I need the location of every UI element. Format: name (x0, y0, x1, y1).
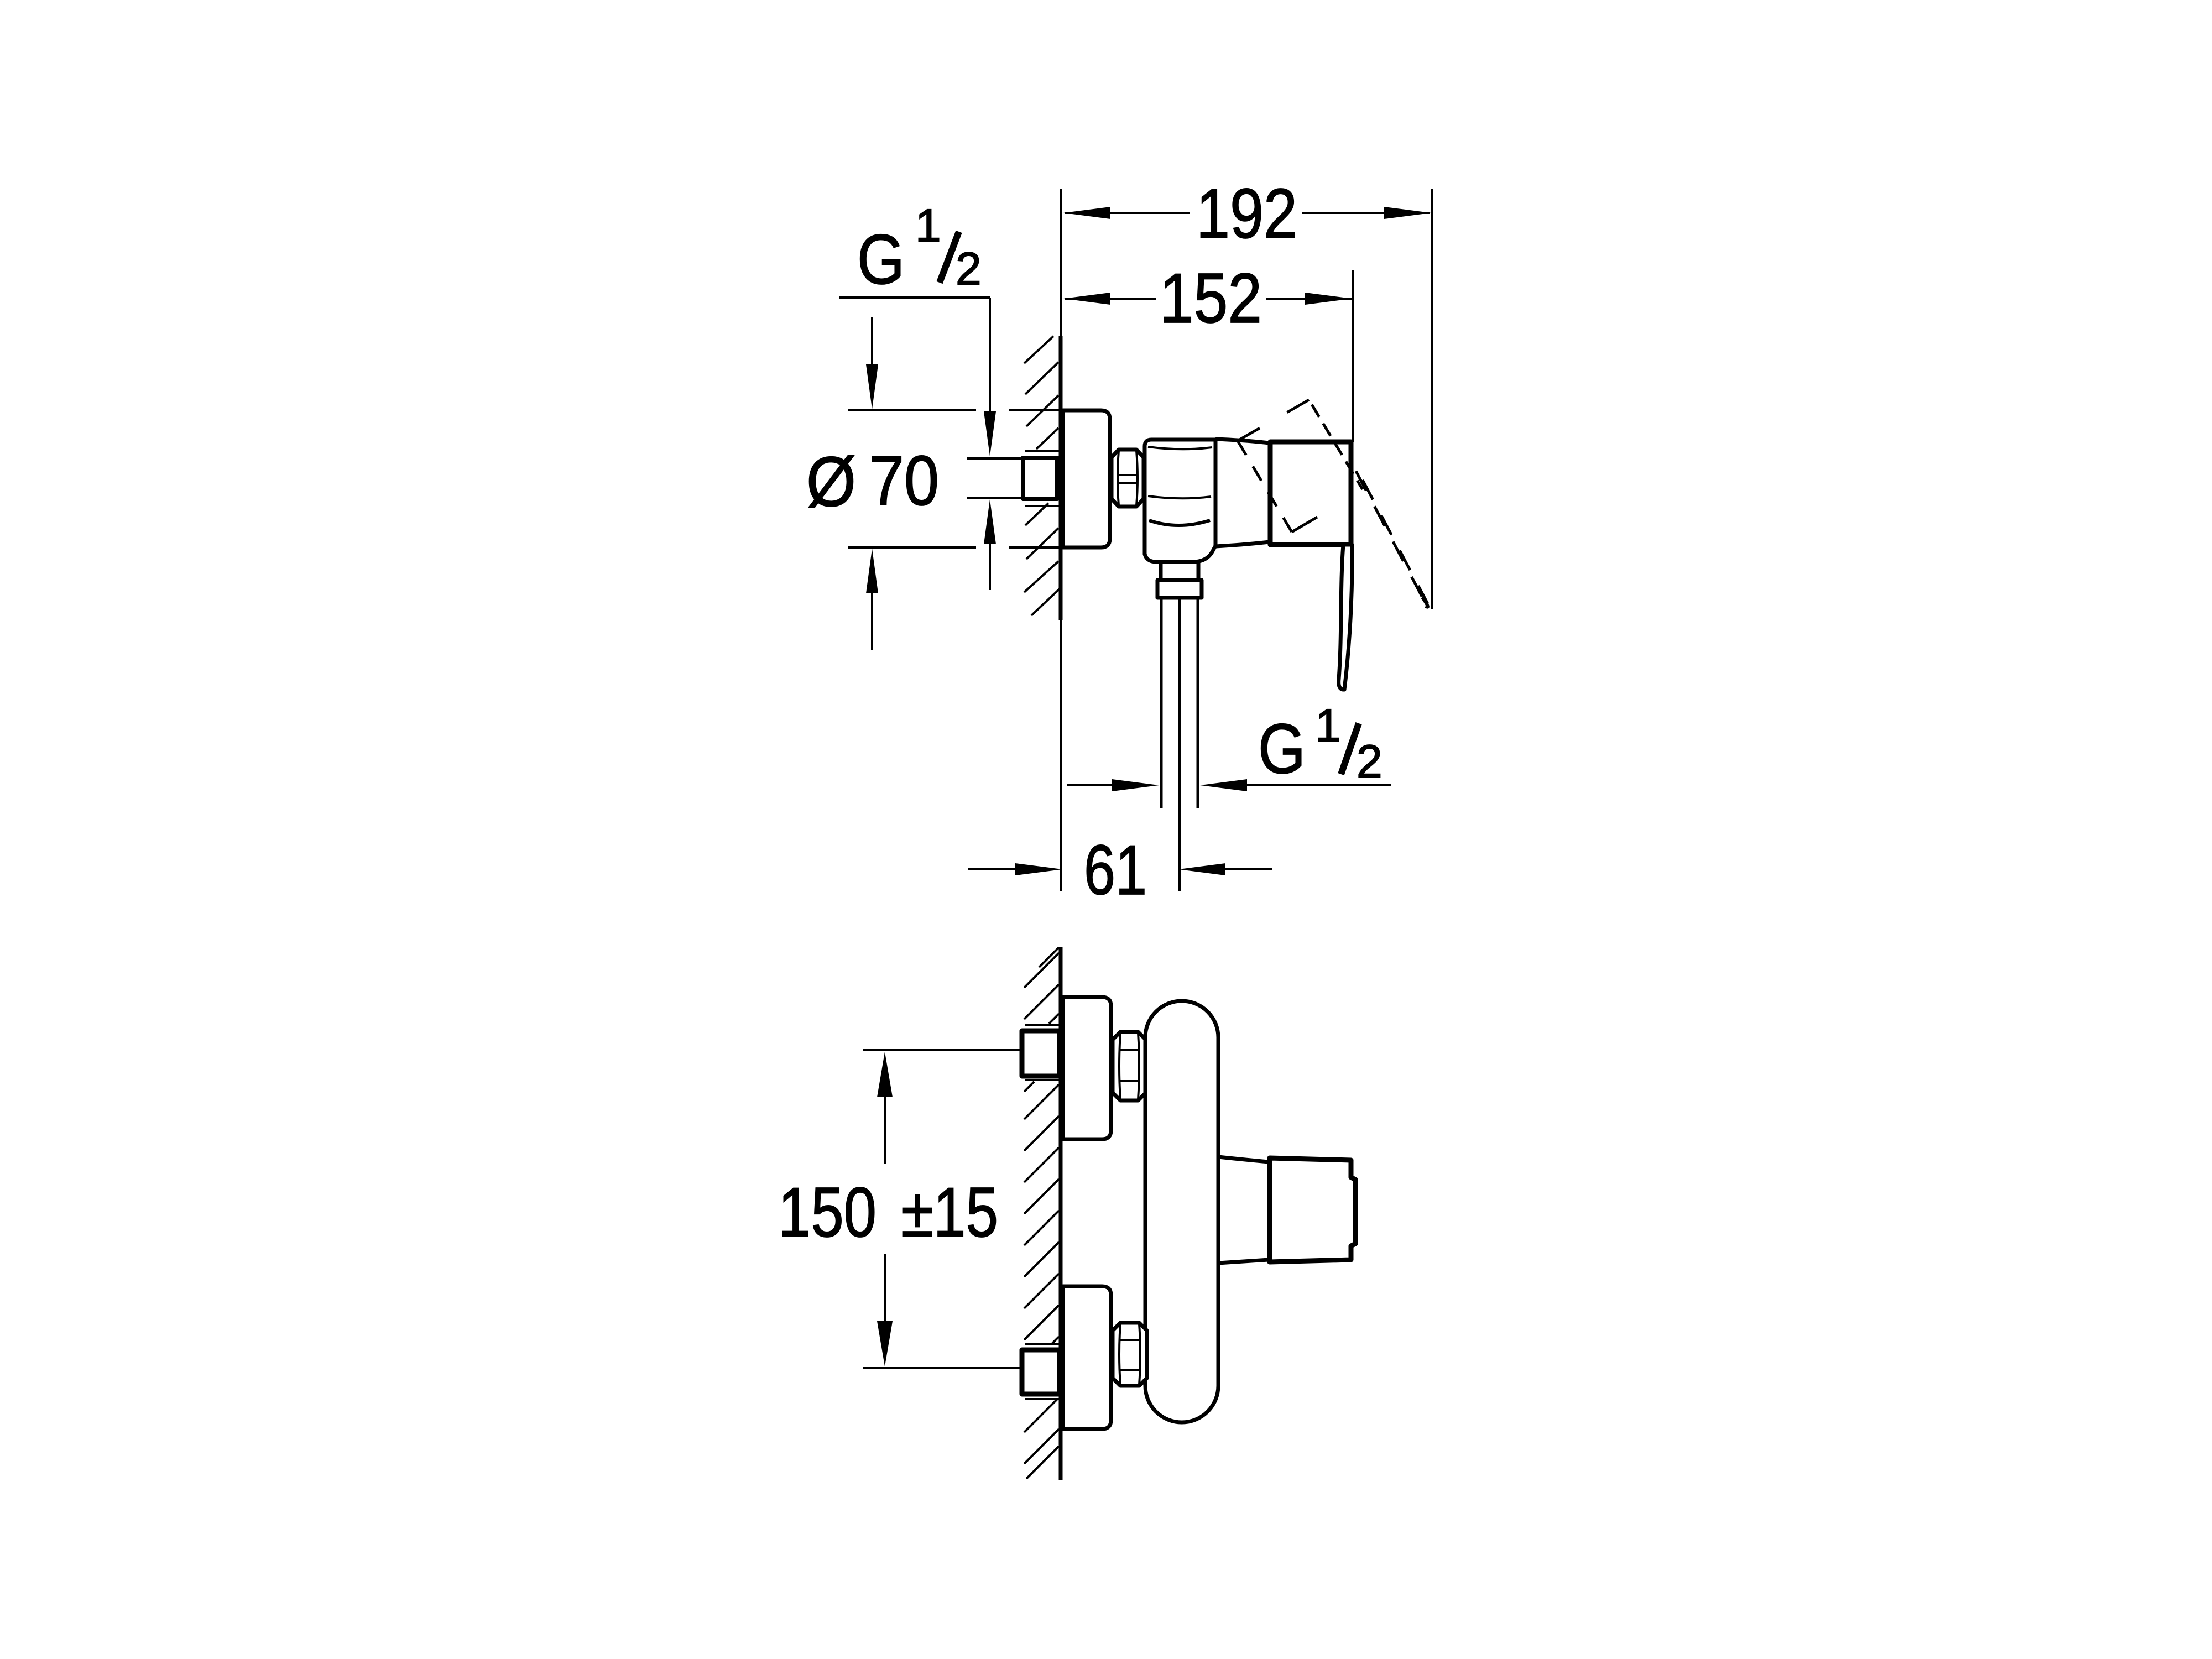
upper hex nut (bottom view) (1113, 1032, 1146, 1100)
wall line (bottom view) (1059, 947, 1063, 1480)
wall hatching (top view) (1024, 336, 1061, 615)
dimension 61 (968, 868, 1272, 870)
cartridge adapter cone (top view) (1215, 438, 1269, 547)
square union nut G1/2 (top view) (1023, 458, 1057, 499)
svg-text:Ø: Ø (806, 442, 856, 521)
lower pipe stub (bottom view) (1025, 1344, 1059, 1399)
outlet stub (top view) (1161, 562, 1198, 580)
upper square union nut (bottom view) (1022, 1031, 1060, 1076)
escutcheon flange (top view) (1063, 410, 1110, 547)
lever handle (solid, closed position) (1339, 545, 1352, 690)
handle block (bottom view) (1270, 1158, 1355, 1262)
dimension 150 ±15 (863, 1050, 1020, 1368)
inlet pipe stub (behind wall) (967, 451, 1059, 506)
svg-text:152: 152 (1160, 259, 1262, 337)
wall line (top view) (1061, 189, 1061, 891)
upper pipe stub (bottom view) (1025, 1025, 1059, 1080)
cartridge cone (bottom view) (1218, 1157, 1269, 1263)
svg-text:70: 70 (869, 441, 939, 520)
lower escutcheon flange (bottom view) (1063, 1286, 1111, 1429)
svg-text:61: 61 (1084, 831, 1147, 909)
valve body (top view) (1145, 440, 1215, 562)
svg-text:192: 192 (1196, 174, 1297, 253)
mixer body (bottom view) (1145, 1001, 1218, 1422)
shower hose (1161, 598, 1198, 891)
lever phantom (raised position, dashed) (1238, 400, 1428, 604)
svg-text:G: G (1258, 709, 1306, 788)
svg-text:1: 1 (915, 200, 941, 252)
hex connection nut (top view) (1112, 450, 1144, 507)
dimension 192 (1065, 189, 1432, 609)
dimension G 1/2 (hose outlet) (1067, 784, 1391, 786)
lower square union nut (bottom view) (1022, 1350, 1060, 1394)
svg-text:±15: ±15 (901, 1173, 998, 1251)
svg-text:2: 2 (1357, 735, 1383, 787)
dimension Ø 70 (848, 317, 1061, 650)
dimension 152 (1065, 270, 1353, 442)
wall hatching (bottom view) (1024, 947, 1059, 1479)
handle block (top view) (1270, 442, 1351, 545)
svg-text:1: 1 (1315, 700, 1341, 752)
svg-text:2: 2 (956, 243, 982, 295)
upper escutcheon flange (bottom view) (1063, 997, 1111, 1139)
hose nut (1157, 580, 1202, 598)
svg-text:G: G (857, 220, 905, 299)
svg-text:150: 150 (778, 1173, 877, 1251)
lower hex nut (bottom view) (1113, 1323, 1147, 1386)
